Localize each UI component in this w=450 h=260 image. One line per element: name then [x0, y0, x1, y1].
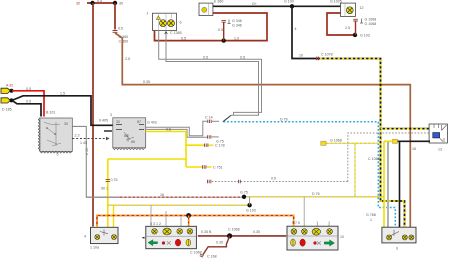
svg-text:0.75: 0.75: [111, 178, 118, 182]
svg-text:0.5: 0.5: [181, 37, 186, 41]
svg-text:2 45: 2 45: [85, 148, 89, 155]
svg-text:2.3: 2.3: [75, 134, 80, 138]
connector G75: [208, 135, 224, 143]
wire: brown feed to middle bus: [115, 33, 410, 227]
bulb L10: [291, 229, 297, 235]
wiper motor unit 13: [429, 124, 447, 152]
bulb L9: [187, 229, 193, 235]
red lamp: [162, 239, 181, 246]
svg-text:0.5: 0.5: [97, 0, 102, 3]
svg-text:D 76: D 76: [280, 118, 288, 122]
connector left of grey dashed: [208, 180, 241, 183]
svg-text:1.5: 1.5: [60, 92, 65, 96]
bulb L2: [168, 20, 175, 27]
connector inline on yellow: [101, 178, 118, 191]
connector C75: [203, 165, 223, 169]
svg-text:10: 10: [340, 235, 344, 239]
node A5 junction: [353, 33, 357, 37]
svg-text:9: 9: [396, 247, 398, 251]
svg-text:G 768: G 768: [366, 213, 376, 217]
svg-text:0.5: 0.5: [218, 28, 223, 32]
svg-text:G 75: G 75: [240, 191, 248, 195]
wire: grey dashed left tail: [212, 181, 348, 183]
svg-text:6: 6: [180, 21, 182, 25]
connector arrow from lamp box: [165, 31, 182, 36]
wire: stub into lamp 14: [188, 216, 190, 227]
svg-text:30: 30: [116, 120, 120, 124]
wire: stubs into lamp 14: [151, 205, 181, 226]
svg-text:J: J: [147, 12, 149, 16]
svg-text:E 360: E 360: [214, 0, 223, 4]
connector C178: [205, 144, 225, 148]
wire: maroon link between clusters: [198, 235, 286, 237]
bulb L3: [346, 7, 353, 14]
connector arrows feed left: [1, 84, 13, 94]
wire: yellow black dashed main: [299, 53, 405, 228]
svg-text:C 14: C 14: [205, 116, 213, 120]
svg-text:0.35: 0.35: [253, 230, 260, 234]
wire: yellow drop right: [384, 141, 393, 227]
wire: dark red lamp box feed loop: [155, 13, 268, 41]
wire: dark red right lamp loop: [327, 13, 355, 35]
wire: stub up from A3: [223, 23, 225, 41]
green arrow left: [148, 240, 158, 246]
svg-text:16: 16: [160, 193, 164, 197]
wire: yellow relay output: [108, 132, 204, 168]
green arrow right: [324, 240, 334, 246]
wire: grey relay B stub: [146, 129, 207, 137]
svg-text:G 346: G 346: [232, 19, 242, 23]
svg-text:1 45: 1 45: [80, 141, 87, 145]
svg-text:86: 86: [124, 134, 128, 138]
switch mark: [313, 241, 321, 244]
wire: orange dashed turn circuit: [97, 216, 294, 227]
wire: black drop from A4: [292, 6, 320, 58]
node A3 junction: [222, 38, 226, 42]
connector C14: [205, 116, 213, 124]
svg-text:G 100: G 100: [284, 0, 294, 4]
svg-text:1 10a: 1 10a: [90, 246, 99, 250]
svg-text:4: 4: [295, 27, 297, 31]
wire: blue dashed: [224, 122, 396, 227]
bulb L13: [327, 229, 333, 235]
node B3 junction: [186, 213, 191, 218]
node A1 junction: [90, 1, 94, 5]
linkage dashed: [72, 137, 109, 145]
wire: black from motor down: [392, 141, 430, 227]
svg-text:0.5: 0.5: [240, 56, 245, 60]
svg-text:2.5: 2.5: [345, 26, 350, 30]
svg-text:C 168: C 168: [207, 255, 217, 259]
svg-text:0.5: 0.5: [271, 177, 276, 181]
svg-text:G 1068: G 1068: [330, 139, 342, 143]
connector yellow inline: [393, 139, 398, 143]
svg-text:5 3 1 2: 5 3 1 2: [150, 222, 161, 226]
bulb L6: [152, 229, 158, 235]
wire: white drop: [387, 142, 389, 227]
wire: black to switch: [12, 100, 41, 116]
svg-text:D 185: D 185: [2, 108, 12, 112]
svg-text:0.5: 0.5: [26, 100, 31, 104]
node B2 junction: [247, 203, 251, 207]
lamp unit box 4: [84, 227, 118, 249]
bulb L14: [387, 235, 392, 240]
lamp cluster box 9: [366, 213, 416, 251]
lamp cluster box 14: [142, 226, 202, 254]
lamp unit box 12 top right: [330, 0, 364, 16]
svg-text:G 1025: G 1025: [330, 0, 342, 4]
svg-text:C 1365: C 1365: [170, 31, 182, 35]
svg-text:G 403: G 403: [147, 121, 157, 125]
wire: top battery feed dark red: [76, 0, 123, 6]
red lamp 2: [300, 239, 305, 246]
wire: yellow dashed line2: [108, 204, 250, 206]
wire: dark red drop from A2: [114, 3, 116, 30]
wire: yellow long vertical to lamp box 4: [107, 159, 109, 228]
svg-text:D 76: D 76: [312, 192, 320, 196]
wire: yellow dashed loop: [321, 139, 379, 198]
bulb L8: [177, 229, 183, 235]
wire: grey lamp wire D: [159, 31, 262, 116]
svg-text:9 7 0: 9 7 0: [292, 221, 300, 225]
svg-text:4: 4: [84, 235, 86, 239]
svg-text:G 1068: G 1068: [365, 22, 377, 26]
svg-text:C 178: C 178: [215, 144, 225, 148]
svg-text:0.5: 0.5: [118, 27, 123, 31]
svg-text:1.0: 1.0: [234, 37, 239, 41]
svg-text:A 32: A 32: [6, 84, 13, 88]
bulb L4: [95, 235, 100, 240]
svg-text:85: 85: [131, 140, 135, 144]
yellow lamp: [186, 239, 191, 246]
svg-text:G 1068: G 1068: [365, 18, 377, 22]
node A2 junction: [113, 1, 117, 5]
svg-text:30: 30: [76, 2, 80, 6]
wire: grey relay A to switch contact: [146, 121, 208, 136]
svg-text:C 1068: C 1068: [190, 251, 202, 255]
svg-text:C 1068: C 1068: [228, 228, 240, 232]
switch unit box 5: [38, 111, 72, 157]
connector G346: [218, 19, 242, 32]
bulb L11: [302, 229, 308, 235]
bulb L16: [409, 235, 414, 240]
wire: maroon drop to connector: [203, 236, 230, 255]
wire: stubs into lamp 10: [304, 197, 329, 227]
svg-text:3: 3: [110, 113, 112, 117]
wire: bright red switch feed: [12, 91, 44, 117]
bulb L12: [312, 228, 320, 235]
svg-text:0.35: 0.35: [216, 241, 223, 245]
svg-text:0.5: 0.5: [166, 128, 171, 132]
yellow lamp 2: [291, 239, 296, 246]
svg-text:C 360: C 360: [119, 40, 129, 44]
wire: grey from switch to bottom line: [72, 126, 120, 197]
indicator symbol triangle: [156, 16, 160, 20]
svg-text:C 751: C 751: [213, 165, 223, 169]
wire: grey lamp wire C: [166, 35, 259, 115]
hazard switch E360 box: [199, 0, 223, 16]
wire: top black bus: [213, 5, 341, 7]
svg-text:0.405: 0.405: [99, 119, 108, 123]
wire: grey-red dashed bottom line1: [86, 191, 383, 198]
svg-text:G 346: G 346: [232, 24, 242, 28]
bulb L5: [112, 235, 117, 240]
node B4 junction: [227, 233, 232, 238]
svg-text:30: 30: [119, 2, 123, 6]
svg-text:C 1068: C 1068: [368, 157, 380, 161]
svg-text:5: 5: [57, 153, 59, 157]
wire: black to relay: [12, 96, 113, 126]
lamp unit box 6 top left: [147, 12, 182, 31]
connector G1068 top: [345, 18, 376, 38]
bulb L15: [402, 235, 407, 240]
svg-text:0.35 B: 0.35 B: [201, 230, 212, 234]
wire: stub up from A5: [355, 21, 357, 35]
svg-text:13: 13: [438, 148, 442, 152]
svg-text:2.5: 2.5: [125, 57, 130, 61]
svg-text:0.35: 0.35: [143, 80, 150, 84]
svg-text:30: 30: [64, 122, 68, 126]
svg-text:12: 12: [360, 6, 364, 10]
svg-text:10: 10: [299, 54, 303, 58]
relay box 3: [110, 113, 146, 150]
svg-text:0.5: 0.5: [26, 87, 31, 91]
switch blade: [223, 115, 231, 121]
bulb L7: [163, 228, 171, 235]
connector C360: [113, 27, 129, 44]
wire: long dark red vertical to lamp box 4: [92, 3, 94, 227]
svg-text:G 103: G 103: [246, 209, 256, 213]
svg-text:1: 1: [370, 218, 372, 222]
wire: grey stub to blade: [212, 120, 219, 122]
svg-text:90 1: 90 1: [101, 187, 108, 191]
svg-text:G 103: G 103: [360, 34, 370, 38]
svg-text:B 101: B 101: [46, 111, 55, 115]
svg-text:16: 16: [412, 147, 416, 151]
wire: yellow black branch to motor: [381, 128, 431, 130]
connector C16: [200, 254, 217, 258]
lamp cluster box 10: [287, 226, 344, 250]
wire: yellow stub 2 into box 4: [113, 205, 115, 227]
wire: grey dashed to motor: [348, 133, 430, 182]
svg-text:G+: G+: [252, 2, 257, 6]
bulb L1: [160, 20, 167, 27]
svg-text:87: 87: [137, 120, 141, 124]
node B1 junction: [242, 195, 246, 199]
svg-text:C 1078: C 1078: [321, 53, 333, 57]
svg-text:0.5: 0.5: [203, 56, 208, 60]
connector arrow 2: [1, 98, 12, 112]
node A4 junction: [290, 4, 294, 8]
